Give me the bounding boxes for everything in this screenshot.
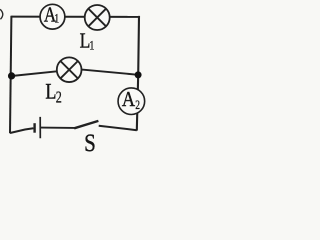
- lamp L1 cross: [88, 9, 106, 27]
- svg-text:L: L: [45, 80, 56, 104]
- svg-text:A: A: [122, 88, 136, 111]
- lamp L2 circle: [57, 57, 82, 82]
- wire middle branch: [12, 70, 139, 76]
- svg-text:2: 2: [135, 99, 140, 113]
- wire top: [11, 16, 139, 18]
- wire bottom left: [10, 128, 33, 133]
- battery negative plate: [33, 123, 35, 133]
- wire left vertical: [10, 16, 11, 134]
- ammeter A1 circle: [40, 4, 65, 29]
- switch S lever: [74, 121, 98, 128]
- wire right vertical: [137, 16, 139, 131]
- junction node left: [8, 72, 15, 79]
- wire battery to switch: [40, 127, 74, 129]
- wire switch contact to right corner: [99, 126, 137, 131]
- svg-text:S: S: [84, 128, 96, 156]
- battery positive plate: [39, 117, 41, 138]
- svg-text:1: 1: [54, 13, 59, 26]
- svg-text:1: 1: [89, 37, 94, 52]
- partial paren at left edge: [0, 9, 3, 19]
- lamp L1 circle: [85, 5, 110, 30]
- junction node right: [135, 71, 142, 78]
- ammeter A2 circle: [118, 88, 145, 115]
- svg-text:2: 2: [56, 89, 62, 107]
- lamp L2 cross: [60, 61, 78, 78]
